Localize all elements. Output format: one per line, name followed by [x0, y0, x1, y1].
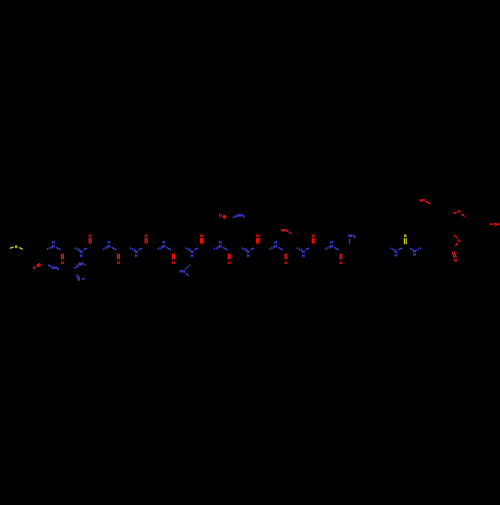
atom N-H (thiourea N2): [413, 248, 416, 257]
backbone C=O up at x=146.2: [145, 233, 148, 243]
bond O-C hashed (Thr): [287, 231, 291, 234]
svg-text:HO: HO: [281, 228, 287, 233]
svg-text:O: O: [284, 260, 287, 265]
atom S (thiourea): [404, 233, 407, 238]
bond N-C7a (indole): [186, 273, 189, 276]
svg-text:O: O: [145, 233, 148, 238]
svg-text:N: N: [163, 243, 166, 248]
bond O-C left (xanthene): [453, 212, 456, 214]
bond N1-C5 (imidazole): [85, 265, 87, 266]
svg-text:H: H: [80, 253, 83, 258]
bond N1-C (thiourea): [398, 248, 402, 250]
backbone amide N-H (res11): [325, 240, 339, 250]
svg-text:H: H: [302, 253, 305, 258]
atom HO (Thr side chain): [281, 228, 287, 233]
svg-text:O: O: [457, 238, 460, 243]
double bond N3 lower (imidazole): [78, 278, 80, 281]
svg-text:O: O: [256, 233, 259, 238]
bond N3-C4 (imidazole): [82, 278, 85, 280]
double bond C=O (Gln side amide): [223, 215, 227, 218]
svg-text:H: H: [394, 253, 397, 258]
atom NH2 (alpha amine): [348, 233, 356, 239]
backbone amide N-H (His): [103, 240, 117, 250]
bond O-C3 (lactone): [455, 243, 457, 246]
bond N-C2 (indole): [185, 265, 190, 269]
backbone C=O down at x=340.9: [339, 254, 342, 265]
bond O-C (fluorescein phenol): [426, 201, 430, 204]
svg-text:NH2: NH2: [52, 265, 60, 271]
svg-text:H: H: [413, 252, 416, 257]
backbone C=O down at x=286.0: [284, 254, 287, 265]
backbone C=O down at x=118.5: [117, 254, 120, 265]
atom O (Gln side amide): [219, 212, 222, 217]
svg-text:O: O: [33, 265, 36, 270]
atom S (Met thioether): [15, 244, 18, 249]
bond C-NH2 (Met amide): [48, 265, 51, 267]
bond C-OH (fluorescein phenol 2): [490, 223, 493, 225]
svg-text:O: O: [117, 260, 120, 265]
atom NH2 (Gln side amide): [237, 213, 245, 219]
svg-text:O: O: [457, 209, 460, 214]
backbone C=O down at x=229.2: [228, 254, 231, 265]
svg-text:O: O: [454, 257, 457, 262]
backbone amide N-H (Ala): [186, 247, 198, 257]
atom N (imidazole N3): [77, 274, 80, 279]
bond N2-Caryl (thiourea): [416, 247, 421, 250]
bond C-N2 (thiourea): [410, 248, 413, 250]
atom N-H (imidazole N1): [79, 261, 85, 266]
svg-text:HO: HO: [419, 197, 425, 202]
svg-text:H: H: [190, 253, 193, 258]
double bond C=O (Met amide): [37, 263, 42, 266]
svg-text:O: O: [219, 212, 222, 217]
svg-text:N: N: [330, 243, 333, 248]
backbone C=O down at x=62.4: [61, 254, 64, 265]
svg-text:O: O: [89, 233, 92, 238]
double bond C=S (thiourea): [404, 238, 406, 244]
atom N-H (thiourea N1): [394, 249, 397, 258]
svg-text:O: O: [228, 260, 231, 265]
bond C-NH2 (Gln side amide): [233, 215, 237, 218]
svg-text:N: N: [274, 243, 277, 248]
atom OH (fluorescein phenol 2): [494, 221, 500, 226]
svg-text:H: H: [247, 253, 250, 258]
bond N1-C2 (imidazole): [74, 263, 80, 268]
bond CH3-S (Met): [10, 247, 14, 249]
svg-text:N: N: [219, 243, 222, 248]
backbone amide N-H (res9): [269, 240, 283, 250]
double bond C=O (lactone): [452, 252, 456, 259]
svg-text:O: O: [61, 260, 64, 265]
atom O (lactone carbonyl): [454, 257, 457, 262]
bond NH2-CH (alpha amine): [349, 239, 351, 244]
atom HO (fluorescein phenol): [419, 197, 425, 202]
svg-text:H: H: [135, 253, 138, 258]
atom O (Met amide carbonyl): [33, 265, 36, 270]
backbone C=O up at x=90.2: [89, 233, 92, 243]
svg-text:NH2: NH2: [348, 233, 356, 239]
atom NH2 (Met amide): [52, 265, 60, 271]
backbone C=O down at x=173.5: [172, 254, 175, 265]
svg-text:O: O: [339, 260, 342, 265]
svg-text:N: N: [108, 243, 111, 248]
atom O (lactone ester): [457, 238, 460, 243]
backbone amide N-H (Trp): [214, 240, 228, 250]
backbone amide N-H (res10): [297, 247, 309, 257]
svg-text:HN: HN: [179, 269, 185, 274]
atom O (xanthene ether): [457, 209, 460, 214]
backbone C=O up at x=201.5: [200, 233, 203, 243]
backbone C=O up at x=257.6: [256, 233, 259, 243]
backbone amide N-H (Gly): [130, 247, 142, 257]
bond S-CH2 (Met): [19, 248, 23, 250]
backbone C=O up at x=313.2: [312, 233, 315, 243]
atom H-N (indole): [179, 269, 185, 274]
svg-text:O: O: [200, 233, 203, 238]
bond C2=N3 upper mark (imidazole): [76, 274, 78, 275]
bond CH2-N1 (thiourea): [390, 248, 394, 251]
svg-text:OH: OH: [494, 221, 500, 226]
svg-text:S: S: [404, 233, 407, 238]
bond Cspiro-O hashed (lactone): [454, 235, 458, 239]
svg-text:O: O: [312, 233, 315, 238]
svg-text:S: S: [15, 244, 18, 249]
backbone amide N-H (Leu): [75, 247, 87, 257]
backbone amide N-H (Met): [47, 240, 61, 250]
svg-text:N: N: [52, 243, 55, 248]
backbone amide N-H (Val): [158, 240, 172, 250]
svg-text:O: O: [172, 260, 175, 265]
backbone amide N-H (Gln): [242, 247, 254, 257]
svg-text:NH2: NH2: [237, 213, 245, 219]
bond O-C right (xanthene): [461, 214, 464, 217]
